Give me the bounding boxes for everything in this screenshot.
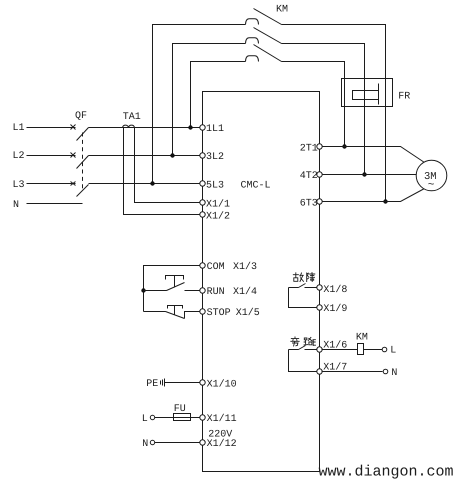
svg-text:X1/12: X1/12 xyxy=(207,438,237,450)
wire KM coil to L xyxy=(364,349,383,351)
terminal 3L2 xyxy=(200,153,205,158)
svg-text:X1/3: X1/3 xyxy=(233,261,257,273)
wire L to X1/11 xyxy=(155,417,200,419)
breaker QF pole 1 xyxy=(71,125,89,141)
wire N xyxy=(27,203,83,205)
junction on L2 xyxy=(170,153,174,157)
svg-text:1L1: 1L1 xyxy=(206,124,224,135)
terminal STOP X1/5 xyxy=(200,309,205,314)
CMC-L soft starter box U1 xyxy=(203,92,320,472)
contactor KM contact 2 xyxy=(246,28,282,44)
svg-text:STOP: STOP xyxy=(207,308,231,319)
terminal X1/6 xyxy=(317,347,322,352)
svg-text:X1/10: X1/10 xyxy=(207,378,237,390)
breaker QF linkage (dashed) xyxy=(82,133,84,190)
fault relay contact (gu zhang) xyxy=(289,284,318,308)
svg-text:QF: QF xyxy=(75,111,87,122)
terminal X1/1 xyxy=(200,200,205,205)
svg-text:L1: L1 xyxy=(13,123,25,134)
ground PE symbol xyxy=(161,379,165,387)
wire riser L2 to KM contact 2 xyxy=(173,44,246,156)
svg-text:CMC-L: CMC-L xyxy=(241,181,271,192)
wire L3 from QF to 5L3 xyxy=(89,183,200,185)
svg-text:X1/5: X1/5 xyxy=(236,307,260,319)
svg-text:PE: PE xyxy=(146,379,158,390)
wire X1/6 to KM coil xyxy=(322,349,358,351)
svg-text:X1/11: X1/11 xyxy=(207,413,237,425)
junction FR to 6T3 xyxy=(383,199,387,203)
wire riser L3 to KM contact 1 xyxy=(153,25,246,184)
pushbutton RUN (NO) xyxy=(144,276,200,291)
svg-text:X1/1: X1/1 xyxy=(206,198,230,210)
svg-text:L3: L3 xyxy=(13,180,25,191)
junction FR to 4T2 xyxy=(362,172,366,176)
terminal X1/11 xyxy=(200,415,205,420)
terminal X1/2 xyxy=(200,212,205,217)
svg-text:www.diangon.com: www.diangon.com xyxy=(319,464,454,481)
svg-text:X1/8: X1/8 xyxy=(323,284,347,296)
thermal relay FR box xyxy=(342,79,393,107)
svg-text:L: L xyxy=(142,414,148,425)
wire L2 from QF to 3L2 xyxy=(89,155,200,157)
svg-text:5L3: 5L3 xyxy=(206,180,224,191)
label fault (gu zhang) hand-drawn glyphs xyxy=(293,273,315,282)
terminal 5L3 xyxy=(200,181,205,186)
terminal 6T3 xyxy=(317,199,322,204)
wire PE to X1/10 xyxy=(165,382,200,384)
wire N to X1/12 xyxy=(155,442,200,444)
svg-text:KM: KM xyxy=(356,333,368,344)
svg-text:L2: L2 xyxy=(13,151,25,162)
wire KM contact 1 to FR xyxy=(282,25,386,79)
terminal 4T2 xyxy=(317,172,322,177)
terminal X1/12 xyxy=(200,440,205,445)
motor 3M xyxy=(416,160,447,191)
thermal relay FR heater element xyxy=(353,84,379,105)
thermal relay FR wires through xyxy=(344,79,346,147)
svg-text:COM: COM xyxy=(207,262,225,273)
junction on L3 xyxy=(150,181,154,185)
svg-text:X1/9: X1/9 xyxy=(323,303,347,315)
terminal COM X1/3 xyxy=(200,263,205,268)
svg-text:N: N xyxy=(142,439,148,450)
svg-text:L: L xyxy=(390,346,396,357)
svg-text:4T2: 4T2 xyxy=(300,171,318,182)
wire 2T1 to motor xyxy=(322,147,425,163)
breaker QF pole 3 xyxy=(71,182,89,197)
terminal X1/8 xyxy=(317,285,322,290)
wire 4T2 to motor xyxy=(322,174,417,176)
terminal X1/10 xyxy=(200,380,205,385)
svg-text:2T1: 2T1 xyxy=(300,143,318,154)
coil KM xyxy=(358,344,364,355)
svg-text:3L2: 3L2 xyxy=(206,152,224,163)
wire TA1 secondary to X1/1 xyxy=(135,128,200,203)
terminal RUN X1/4 xyxy=(200,288,205,293)
svg-text:N: N xyxy=(13,200,19,211)
contactor KM contact 1 xyxy=(246,9,282,25)
wire COM feed xyxy=(144,266,200,312)
wire L1 from QF to 1L1 xyxy=(89,127,200,129)
wire 6T3 to motor xyxy=(322,189,425,202)
wire L2 input xyxy=(27,155,76,157)
wire L1 input xyxy=(27,127,76,129)
wire X1/7 to N xyxy=(322,371,383,373)
svg-text:~: ~ xyxy=(428,180,435,192)
svg-text:FR: FR xyxy=(398,92,410,103)
junction on L1 xyxy=(188,125,192,129)
pushbutton STOP (NC) xyxy=(144,306,200,319)
wire TA1 secondary to X1/2 xyxy=(124,128,200,215)
wire L3 input xyxy=(27,183,76,185)
wire KM contact 2 to FR xyxy=(282,44,365,79)
svg-text:6T3: 6T3 xyxy=(300,198,318,209)
terminal 2T1 xyxy=(317,144,322,149)
svg-text:TA1: TA1 xyxy=(123,112,141,123)
svg-text:N: N xyxy=(391,368,397,379)
terminal X1/9 xyxy=(317,305,322,310)
junction RUN feed xyxy=(141,288,145,292)
svg-text:X1/2: X1/2 xyxy=(206,211,230,223)
node N terminal xyxy=(383,369,388,374)
bypass contact (pang lu) xyxy=(289,346,318,372)
junction FR to 2T1 xyxy=(342,144,346,148)
breaker QF pole 2 xyxy=(71,153,89,169)
terminal 1L1 xyxy=(200,125,205,130)
label bypass (pang lu) hand-drawn glyphs xyxy=(291,337,316,346)
svg-text:X1/4: X1/4 xyxy=(233,286,257,298)
node L terminal xyxy=(382,347,387,352)
current transformer TA1 windings xyxy=(123,125,135,127)
terminal X1/7 xyxy=(317,369,322,374)
fuse FU xyxy=(174,414,191,421)
svg-text:RUN: RUN xyxy=(207,287,225,298)
svg-text:KM: KM xyxy=(276,5,288,16)
wire KM contact 3 to FR xyxy=(282,62,345,79)
contactor KM contact 3 xyxy=(246,45,282,62)
wire riser L1 to KM contact 3 xyxy=(191,62,246,128)
